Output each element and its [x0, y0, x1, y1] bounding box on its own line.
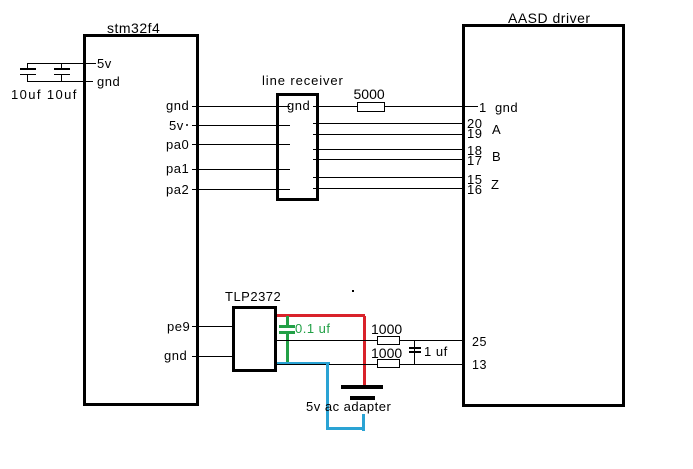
- pin label gnd (stm32f4 left): [97, 75, 120, 88]
- stray dot: [352, 290, 354, 292]
- wire gnd stm32f4 to TLP2372: [192, 356, 232, 357]
- wire 5v stm32f4 to line receiver: [192, 125, 290, 126]
- label 1000 (R3): [371, 346, 402, 360]
- capacitor C3 0.1uf (green): [0, 0, 1, 1]
- net Z label: [491, 178, 499, 191]
- battery B1 minus plate: [350, 396, 375, 400]
- label stm32f4: [107, 21, 160, 35]
- wire blue right vertical to battery minus: [362, 414, 365, 431]
- pin label 5v (stm32f4 left): [97, 57, 112, 70]
- pin label gnd (line receiver): [287, 99, 310, 112]
- wire gnd stm32f4 to line receiver: [192, 106, 290, 107]
- wire blue bottom horizontal: [326, 427, 365, 430]
- label 1000 (R2): [371, 322, 402, 336]
- pin 17 label: [467, 154, 482, 167]
- pin label pa1: [166, 162, 189, 175]
- label AASD driver: [508, 11, 591, 25]
- wire pe9 stm32f4 to TLP2372: [192, 326, 232, 327]
- pin label 5v (stm32f4 right): [186, 124, 188, 126]
- wire to pin 16: [313, 188, 463, 189]
- pin 16 label: [467, 183, 482, 196]
- wire to pin 18: [313, 149, 463, 150]
- label 5v ac adapter: [306, 400, 391, 413]
- resistor R3 1000: [377, 359, 400, 368]
- wire gnd rail top-left: [27, 81, 93, 82]
- IC U4 TLP2372 box: [232, 306, 277, 372]
- label TLP2372: [225, 290, 281, 303]
- label 10uf 10uf: [11, 88, 78, 101]
- wire to pin 19: [313, 134, 463, 135]
- capacitor C1 10uf: [0, 0, 1, 1]
- resistor R1 5000: [357, 102, 385, 112]
- label line receiver: [262, 74, 344, 87]
- wire blue left vertical: [326, 362, 329, 430]
- pin 15 label: [467, 173, 482, 186]
- IC U3 AASD driver box: [462, 24, 625, 407]
- pin 1 gnd label: [479, 101, 518, 114]
- capacitor C4 1uf: [0, 0, 1, 1]
- battery B1 plus plate: [341, 385, 383, 389]
- pin 18 label: [467, 144, 482, 157]
- label 5000: [354, 87, 385, 101]
- label 0.1 uf: [295, 322, 331, 335]
- wire to pin 15: [313, 177, 463, 178]
- label 1 uf: [424, 345, 448, 358]
- pin label pa2: [166, 183, 189, 196]
- wire red +5v vertical to battery: [363, 316, 366, 386]
- pin 25 label: [472, 336, 487, 349]
- wire 5v rail top-left: [27, 63, 96, 64]
- wire to pin 20: [313, 123, 463, 124]
- pin label gnd (stm32f4 right): [166, 99, 189, 112]
- pin label pa0: [166, 138, 189, 151]
- IC U1 stm32f4 box: [83, 34, 199, 406]
- resistor R2 1000: [377, 336, 400, 345]
- wire TLP2372 to resistor R2 and pin 25: [277, 340, 463, 341]
- IC U2 line receiver box: [276, 93, 319, 201]
- wire pa1 stm32f4 to line receiver: [192, 169, 290, 170]
- wire to pin 17: [313, 159, 463, 160]
- wire pa0 stm32f4 to line receiver: [192, 144, 290, 145]
- pin 13 label: [472, 359, 487, 372]
- pin 20 label: [467, 117, 482, 130]
- capacitor C2 10uf: [0, 0, 1, 1]
- wire gnd line receiver to resistor R1 and pin 1: [313, 106, 478, 107]
- pin 19 label: [467, 127, 482, 140]
- wire to resistor R3 and pin 13: [277, 364, 463, 365]
- wire pa2 stm32f4 to line receiver: [192, 189, 290, 190]
- net B label: [492, 150, 501, 163]
- wire blue horizontal from TLP2372: [277, 362, 330, 365]
- wire red +5v horizontal: [277, 314, 365, 317]
- net A label: [492, 123, 501, 136]
- pin label pe9: [167, 320, 190, 333]
- pin label gnd (stm32f4 bottom): [164, 349, 187, 362]
